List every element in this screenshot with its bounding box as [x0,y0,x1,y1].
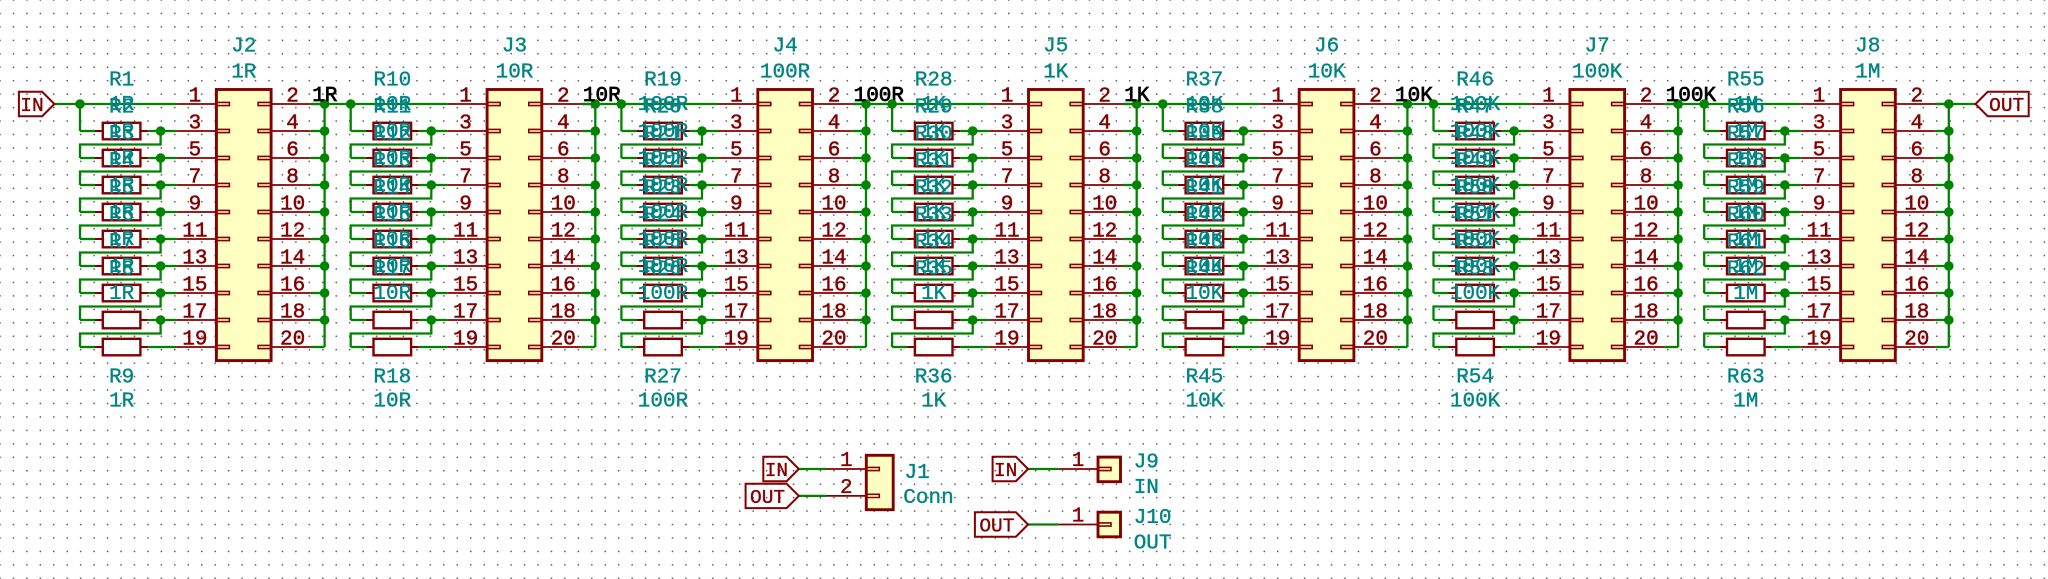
junction chain tap R60/R61 [1780,261,1790,271]
connector J10 socket mark [1098,523,1111,526]
resistor R7 1R [95,292,103,294]
svg-text:20: 20 [821,329,846,352]
resistor R59 1M [1719,238,1727,240]
svg-text:R11: R11 [373,97,411,120]
junction chain tap R35/R36 [968,315,978,325]
svg-text:R43: R43 [1185,232,1223,255]
svg-text:9: 9 [1813,194,1826,217]
connector J1 pin lines [827,468,867,470]
resistor R42 10K [1178,265,1186,267]
svg-text:19: 19 [994,329,1019,352]
junction bus 100R pin 10 [861,207,871,217]
junction chain tap R31/R32 [968,207,978,217]
svg-text:17: 17 [182,302,207,325]
resistor R30 1K [907,184,915,186]
connector J7 (100K decade) body [1570,90,1625,361]
global label IN (J9) [993,457,1029,481]
svg-text:3: 3 [1001,113,1014,136]
junction chain tap R28/R29 [968,126,978,136]
resistor R38 10K [1178,157,1186,159]
svg-text:R6: R6 [109,205,134,228]
resistor R44 10K [1178,319,1186,321]
junction chain tap R59/R60 [1780,234,1790,244]
junction bus 10K pin 18 [1403,315,1413,325]
svg-text:1: 1 [1271,86,1284,109]
svg-text:6: 6 [1098,140,1111,163]
junction chain tap R23/R24 [697,234,707,244]
connector J7 socket marks [1570,102,1583,105]
svg-text:R50: R50 [1456,178,1494,201]
junction chain tap R32/R33 [968,234,978,244]
svg-text:R29: R29 [915,97,953,120]
svg-text:R5: R5 [109,178,134,201]
connector J2 socket marks [216,102,229,105]
junction bus 1R pin 16 [320,288,330,298]
wire net 1R vertical bus [323,104,325,347]
svg-text:R46: R46 [1456,70,1494,93]
resistor R10 10R [366,130,374,132]
svg-text:R12: R12 [373,124,411,147]
svg-text:6: 6 [557,140,570,163]
svg-text:20: 20 [551,329,576,352]
resistor R34 1K [907,292,915,294]
connector J3 (10R decade) body [487,90,542,361]
junction chain tap R3/R4 [156,180,166,190]
wire net 1K vertical bus [1136,104,1138,347]
svg-text:16: 16 [551,275,576,298]
svg-text:1K: 1K [921,283,947,306]
svg-text:7: 7 [1542,167,1555,190]
svg-text:6: 6 [1910,140,1923,163]
junction bus 100R pin 12 [861,234,871,244]
svg-text:12: 12 [1904,221,1929,244]
junction chain tap R38/R39 [1239,153,1249,163]
svg-text:14: 14 [1904,248,1929,271]
svg-text:1: 1 [459,86,472,109]
svg-text:10K: 10K [1185,391,1223,414]
junction bus 1M pin 8 [1944,180,1954,190]
svg-text:7: 7 [1001,167,1014,190]
junction bus 10K pin 14 [1403,261,1413,271]
junction bus 1M pin 12 [1944,234,1954,244]
svg-text:2: 2 [1910,86,1923,109]
connector J10 body [1098,512,1121,537]
junction chain tap R46/R47 [1509,126,1519,136]
connector J9 socket mark [1098,467,1111,470]
connector J9 pin line [1058,468,1098,470]
wire resistor chain J6 block [1162,104,1164,131]
junction bus 10R pin 8 [591,180,601,190]
wire OUT to J1 pin 2 [799,495,827,497]
connector J6 (10K decade) body [1299,90,1354,361]
junction chain tap R37/R38 [1239,126,1249,136]
svg-text:J10: J10 [1134,507,1172,530]
junction bus 1M pin 18 [1944,315,1954,325]
svg-text:8: 8 [1910,167,1923,190]
svg-text:20: 20 [1633,329,1658,352]
svg-text:20: 20 [280,329,305,352]
resistor R48 100K [1449,184,1457,186]
connector J6 pin lines [1259,103,1299,105]
junction bus 100K pin 4 [1673,126,1683,136]
svg-text:R1: R1 [109,70,134,93]
resistor R36 1K [907,346,915,348]
resistor R29 1K [907,157,915,159]
connector J5 socket marks [1029,102,1042,105]
junction bus 1R pin 14 [320,261,330,271]
resistor R24 100R [636,265,644,267]
junction chain tap R7/R8 [156,288,166,298]
resistor R8 1R [95,319,103,321]
svg-text:R7: R7 [109,232,134,255]
resistor R35 1K [907,319,915,321]
svg-text:4: 4 [1369,113,1382,136]
connector J10 pin line [1058,524,1098,526]
junction chain tap R44/R45 [1239,315,1249,325]
junction chain tap R47/R48 [1509,153,1519,163]
svg-text:15: 15 [994,275,1019,298]
svg-text:R10: R10 [373,70,411,93]
svg-text:R60: R60 [1727,205,1765,228]
junction node block J8 chain top [1699,99,1709,109]
svg-text:R44: R44 [1185,259,1223,282]
connector J1 socket marks [866,467,879,470]
resistor R53 100K [1449,319,1457,321]
svg-text:R41: R41 [1185,178,1223,201]
svg-text:20: 20 [1904,329,1929,352]
svg-text:18: 18 [1633,302,1658,325]
junction bus 10R pin 18 [591,315,601,325]
svg-text:7: 7 [459,167,472,190]
junction node block J6 chain top [1158,99,1168,109]
wire resistor row connections J5 [892,130,907,132]
svg-text:R26: R26 [644,259,682,282]
svg-text:13: 13 [453,248,478,271]
resistor R28 1K [907,130,915,132]
junction node block J3 chain top [346,99,356,109]
junction bus 1K pin 10 [1132,207,1142,217]
svg-text:1: 1 [189,86,202,109]
junction bus 1M pin 10 [1944,207,1954,217]
resistor R37 10K [1178,130,1186,132]
junction bus 10K pin 8 [1403,180,1413,190]
wire even pin stubs to bus J8 [1935,103,1949,105]
svg-text:4: 4 [1640,113,1653,136]
svg-text:R9: R9 [109,367,134,390]
svg-text:R36: R36 [915,367,953,390]
junction chain tap R61/R62 [1780,288,1790,298]
junction chain tap R29/R30 [968,153,978,163]
junction chain tap R42/R43 [1239,261,1249,271]
connector J5 pin lines [989,103,1029,105]
junction bus 10R pin 4 [591,126,601,136]
svg-text:18: 18 [1092,302,1117,325]
svg-text:12: 12 [280,221,305,244]
svg-text:100R: 100R [638,283,689,306]
svg-text:2: 2 [1640,86,1653,109]
wire even pin stubs to bus J2 [311,103,325,105]
connector J8 pin lines [1801,103,1841,105]
wire resistor row connections J6 [1163,130,1178,132]
global label OUT (J1) [746,484,799,508]
resistor R54 100K [1449,346,1457,348]
junction chain tap R51/R52 [1509,261,1519,271]
resistor R32 1K [907,238,915,240]
svg-text:10: 10 [1363,194,1388,217]
svg-text:16: 16 [1904,275,1929,298]
resistor R20 100R [636,157,644,159]
svg-text:1R: 1R [231,62,257,85]
junction bus 10R pin 14 [591,261,601,271]
svg-text:R22: R22 [644,151,682,174]
svg-text:10: 10 [1092,194,1117,217]
junction bus 100R pin 4 [861,126,871,136]
resistor R33 1K [907,265,915,267]
wire net 100R vertical bus [865,104,867,347]
global label OUT (J10) [975,512,1028,536]
resistor R4 1R [95,211,103,213]
svg-text:R33: R33 [915,205,953,228]
svg-text:5: 5 [1001,140,1014,163]
resistor R56 1M [1719,157,1727,159]
svg-text:1K: 1K [1043,62,1069,85]
junction chain tap R16/R17 [427,288,437,298]
svg-text:2: 2 [840,477,853,500]
svg-text:17: 17 [1265,302,1290,325]
svg-text:R47: R47 [1456,97,1494,120]
junction chain tap R12/R13 [427,180,437,190]
svg-text:18: 18 [1363,302,1388,325]
junction bus 1K pin 18 [1132,315,1142,325]
svg-text:17: 17 [994,302,1019,325]
svg-text:R14: R14 [373,178,411,201]
svg-text:17: 17 [1806,302,1831,325]
resistor R50 100K [1449,238,1457,240]
svg-text:13: 13 [724,248,749,271]
svg-text:19: 19 [182,329,207,352]
svg-text:100R: 100R [638,391,689,414]
junction chain tap R62/R63 [1780,315,1790,325]
wire even pin stubs to bus J3 [582,103,596,105]
svg-text:J8: J8 [1855,36,1880,59]
wire top net segment between blocks 5 [1394,103,1530,105]
svg-text:2: 2 [557,86,570,109]
junction bus 100R pin 2 [861,99,871,109]
svg-text:8: 8 [1369,167,1382,190]
svg-text:11: 11 [724,221,749,244]
global label IN (J1) [763,457,799,481]
svg-text:2: 2 [286,86,299,109]
svg-text:9: 9 [1542,194,1555,217]
svg-text:1M: 1M [1855,62,1880,85]
svg-text:14: 14 [1363,248,1388,271]
svg-text:11: 11 [1536,221,1561,244]
svg-text:10R: 10R [373,391,411,414]
svg-text:6: 6 [1640,140,1653,163]
svg-text:J6: J6 [1314,36,1339,59]
svg-text:R56: R56 [1727,97,1765,120]
wire top net segment between blocks 2 [582,103,718,105]
svg-text:1R: 1R [109,283,135,306]
junction chain tap R14/R15 [427,234,437,244]
svg-text:R53: R53 [1456,259,1494,282]
svg-text:11: 11 [182,221,207,244]
wire even pin stubs to bus J7 [1664,103,1678,105]
svg-text:OUT: OUT [750,487,785,509]
svg-text:J9: J9 [1134,452,1159,475]
resistor R41 10K [1178,238,1186,240]
junction chain tap R40/R41 [1239,207,1249,217]
svg-text:R63: R63 [1727,367,1765,390]
wire resistor row connections J4 [621,130,636,132]
junction chain tap R20/R21 [697,153,707,163]
svg-text:14: 14 [280,248,305,271]
junction chain tap R49/R50 [1509,207,1519,217]
svg-text:12: 12 [551,221,576,244]
resistor R13 10R [366,211,374,213]
svg-text:16: 16 [1633,275,1658,298]
junction bus 1K pin 4 [1132,126,1142,136]
svg-text:12: 12 [1633,221,1658,244]
svg-text:R23: R23 [644,178,682,201]
svg-text:R18: R18 [373,367,411,390]
junction bus 1M pin 2 [1944,99,1954,109]
resistor R63 1M [1719,346,1727,348]
connector J4 (100R decade) body [758,90,813,361]
resistor R43 10K [1178,292,1186,294]
svg-text:17: 17 [453,302,478,325]
svg-text:R17: R17 [373,259,411,282]
svg-text:14: 14 [551,248,576,271]
svg-text:10: 10 [1633,194,1658,217]
svg-text:17: 17 [724,302,749,325]
resistor R2 1R [95,157,103,159]
junction bus 100K pin 2 [1673,99,1683,109]
junction chain tap R25/R26 [697,288,707,298]
wire net 1M vertical bus [1948,104,1950,347]
svg-text:1K: 1K [921,391,947,414]
wire IN to J1 pin 1 [799,468,827,470]
svg-text:R21: R21 [644,124,682,147]
svg-text:R51: R51 [1456,205,1494,228]
junction bus 1M pin 16 [1944,288,1954,298]
wire top net segment between blocks 4 [1123,103,1259,105]
resistor R15 10R [366,265,374,267]
global label IN (left) [19,92,55,116]
svg-text:4: 4 [828,113,841,136]
connector J6 socket marks [1299,102,1312,105]
junction bus 10K pin 10 [1403,207,1413,217]
svg-text:1R: 1R [109,391,135,414]
svg-text:R31: R31 [915,151,953,174]
junction chain tap R13/R14 [427,207,437,217]
resistor R51 100K [1449,265,1457,267]
svg-text:3: 3 [1813,113,1826,136]
svg-text:J3: J3 [502,36,527,59]
wire resistor chain J3 block [350,104,352,131]
junction chain tap R48/R49 [1509,180,1519,190]
junction chain tap R56/R57 [1780,153,1790,163]
svg-text:5: 5 [189,140,202,163]
resistor R25 100R [636,292,644,294]
wire resistor chain J7 block [1432,104,1434,131]
svg-text:1: 1 [840,450,853,473]
junction chain tap R22/R23 [697,207,707,217]
svg-text:1M: 1M [1733,391,1758,414]
svg-text:12: 12 [821,221,846,244]
svg-text:4: 4 [286,113,299,136]
connector J1 body [866,455,893,509]
svg-text:15: 15 [182,275,207,298]
junction bus 10K pin 6 [1403,153,1413,163]
svg-text:R58: R58 [1727,151,1765,174]
svg-text:16: 16 [280,275,305,298]
svg-text:10: 10 [280,194,305,217]
svg-text:18: 18 [821,302,846,325]
wire even pin stubs to bus J4 [852,103,866,105]
wire resistor row connections J3 [351,130,366,132]
wire resistor chain J5 block [891,104,893,131]
svg-text:13: 13 [182,248,207,271]
svg-text:15: 15 [724,275,749,298]
svg-text:19: 19 [453,329,478,352]
junction bus 1R pin 10 [320,207,330,217]
svg-text:R40: R40 [1185,151,1223,174]
svg-text:13: 13 [994,248,1019,271]
svg-text:R35: R35 [915,259,953,282]
svg-text:R59: R59 [1727,178,1765,201]
svg-text:R4: R4 [109,151,134,174]
junction bus 1K pin 14 [1132,261,1142,271]
global label OUT (right) [1976,92,2029,116]
svg-text:100K: 100K [1572,62,1623,85]
junction bus 10R pin 12 [591,234,601,244]
svg-text:11: 11 [994,221,1019,244]
resistor R27 100R [636,346,644,348]
junction bus 10K pin 16 [1403,288,1413,298]
svg-text:R27: R27 [644,367,682,390]
wire resistor chain J4 block [620,104,622,131]
junction bus 10R pin 6 [591,153,601,163]
svg-text:1: 1 [1813,86,1826,109]
junction bus 1R pin 8 [320,180,330,190]
svg-text:10K: 10K [1395,85,1433,108]
resistor R31 1K [907,211,915,213]
svg-text:OUT: OUT [1134,533,1172,556]
junction chain tap R6/R7 [156,261,166,271]
resistor R6 1R [95,265,103,267]
svg-text:20: 20 [1092,329,1117,352]
svg-text:J4: J4 [772,36,797,59]
junction bus 1R pin 6 [320,153,330,163]
svg-text:13: 13 [1536,248,1561,271]
svg-text:10: 10 [551,194,576,217]
junction chain tap R53/R54 [1509,315,1519,325]
resistor R60 1M [1719,265,1727,267]
wire even pin stubs to bus J5 [1123,103,1137,105]
svg-text:19: 19 [724,329,749,352]
wire top net OUT segment [1935,103,1975,105]
svg-text:R39: R39 [1185,124,1223,147]
junction chain tap R41/R42 [1239,234,1249,244]
svg-text:8: 8 [1640,167,1653,190]
junction bus 100K pin 18 [1673,315,1683,325]
junction node block J4 chain top [617,99,627,109]
junction node block J5 chain top [887,99,897,109]
resistor R57 1M [1719,184,1727,186]
connector J7 pin lines [1530,103,1570,105]
junction chain tap R43/R44 [1239,288,1249,298]
